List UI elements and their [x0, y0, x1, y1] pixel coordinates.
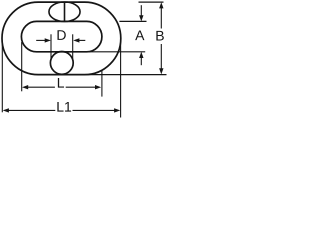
inner bottom line extension (A bottom reference) [87, 51, 146, 53]
B label [156, 31, 163, 41]
B dimension line bottom part with down arrow [159, 68, 163, 74]
A dimension bottom arrow [139, 52, 143, 58]
L1 left extension line [1, 41, 3, 113]
wire cross-section circle (diameter D) [50, 52, 73, 75]
D left extension line [50, 34, 52, 60]
L1 dimension line with arrows [3, 108, 9, 112]
L right extension line [101, 71, 103, 97]
weld bulge ellipse on top limb [49, 2, 80, 22]
L1 right extension line [120, 41, 122, 118]
D right extension line [72, 34, 74, 60]
L left extension line [21, 42, 23, 91]
weld seam line [64, 2, 66, 21]
L1 label [57, 102, 71, 112]
L label [58, 78, 64, 88]
B dimension line top part with up arrow [159, 2, 163, 8]
chain link inner contour [21, 21, 102, 51]
outer bottom line extension (B bottom reference) [85, 74, 167, 76]
chain link outer contour [2, 2, 121, 75]
A top extension line [119, 20, 146, 22]
B top extension line [139, 1, 164, 3]
A label [135, 30, 144, 40]
D label [57, 30, 65, 40]
A dimension top arrow [140, 5, 142, 16]
D dimension right arrow [73, 38, 79, 42]
L dimension line with arrows [22, 85, 28, 89]
D dimension left arrow [36, 39, 46, 41]
